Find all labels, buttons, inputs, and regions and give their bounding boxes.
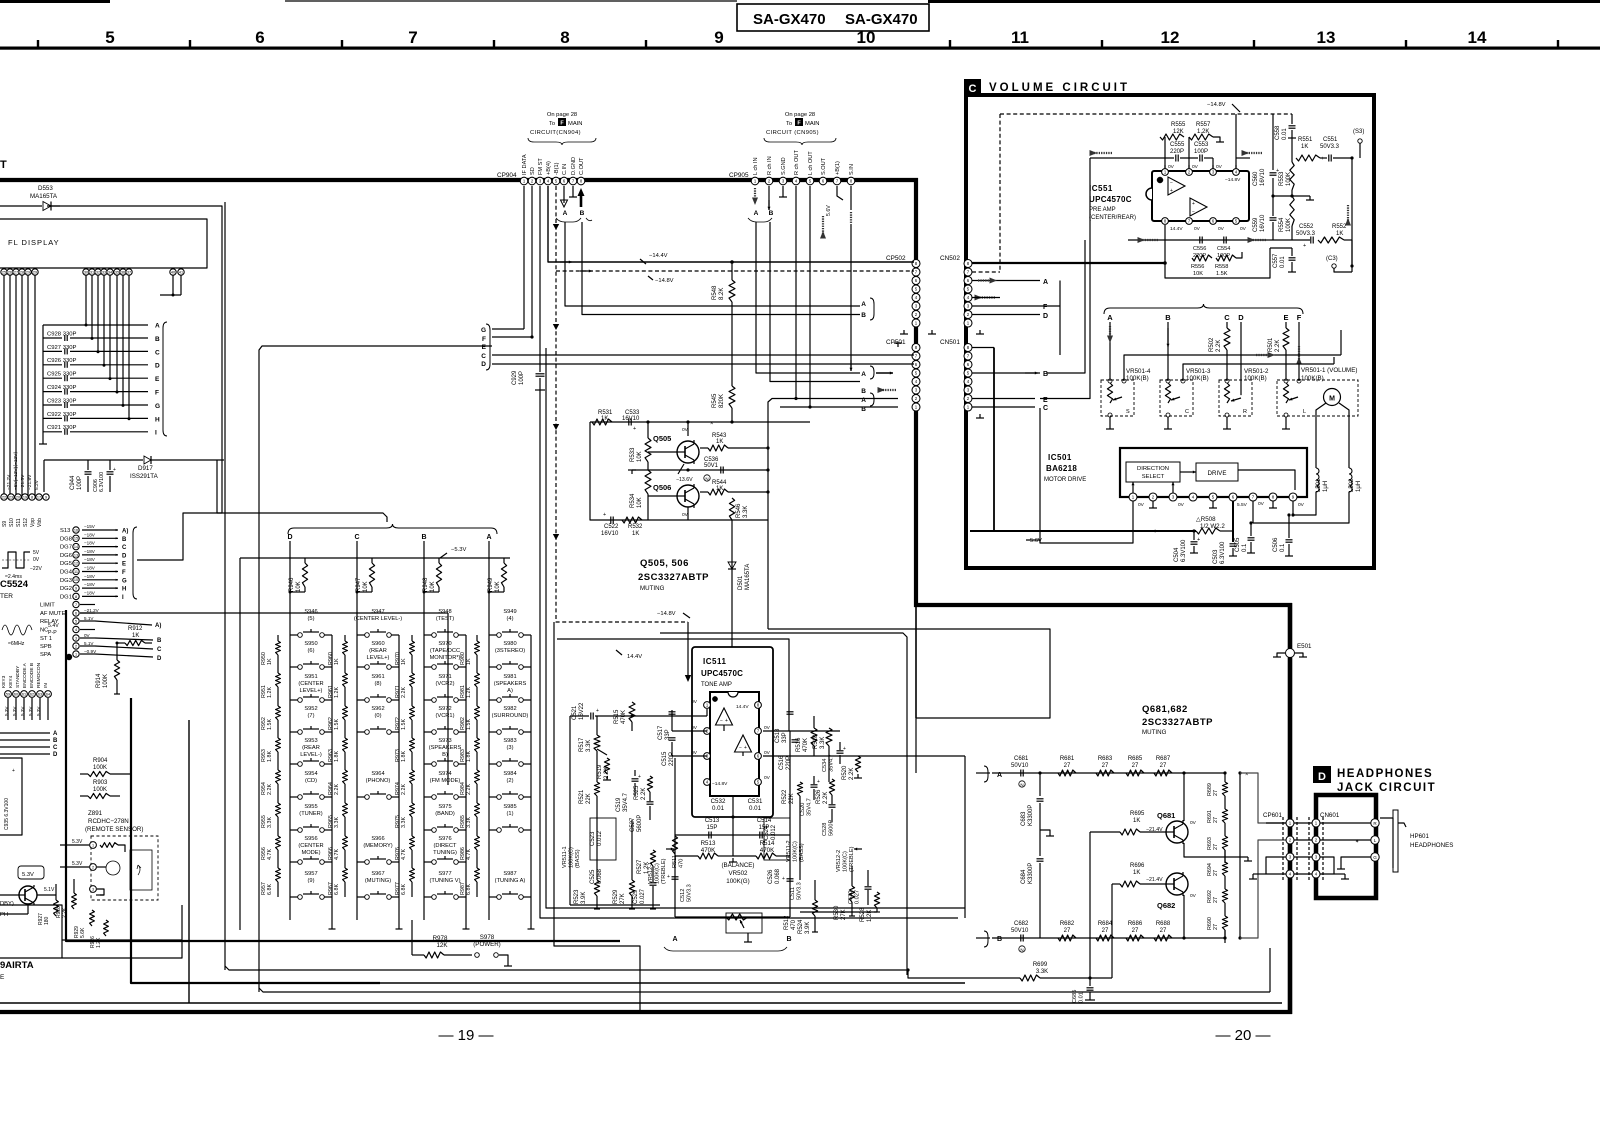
- svg-text:64: 64: [46, 692, 50, 696]
- svg-text:C684: C684: [1021, 869, 1027, 884]
- svg-text:C: C: [122, 545, 127, 551]
- svg-text:0V: 0V: [1258, 501, 1265, 507]
- wires pins row3 down: [7, 698, 9, 720]
- svg-text:0V: 0V: [1138, 502, 1145, 508]
- svg-text:R974: R974: [395, 782, 401, 795]
- svg-text:C551: C551: [1323, 137, 1338, 143]
- svg-text:+: +: [1303, 243, 1306, 249]
- svg-text:C525: C525: [590, 869, 596, 884]
- svg-text:C928 330P: C928 330P: [47, 331, 77, 337]
- svg-text:(CD): (CD): [305, 778, 317, 784]
- wire parallel x1240: [1239, 773, 1241, 938]
- headphones box outline: [1316, 795, 1376, 898]
- svg-text:(PHONO): (PHONO): [366, 778, 391, 784]
- arrow Rch down: [768, 186, 770, 210]
- wire matrix header drops: [289, 541, 291, 600]
- svg-text:C926 330P: C926 330P: [47, 358, 77, 364]
- svg-text:VR501-4: VR501-4: [1126, 368, 1151, 375]
- svg-text:D: D: [122, 553, 127, 559]
- svg-text:C925 330P: C925 330P: [47, 372, 77, 378]
- svg-text:10: 10: [857, 28, 876, 47]
- wire thin loop y633: [660, 633, 907, 975]
- svg-text:R687: R687: [1156, 756, 1171, 762]
- ground D.GND: [572, 186, 574, 197]
- svg-text:A: A: [1107, 313, 1113, 322]
- svg-text:100K(C): 100K(C): [792, 841, 798, 862]
- striped arrow left 2: [1246, 152, 1262, 154]
- svg-text:8: 8: [560, 28, 569, 47]
- svg-text:×: ×: [710, 421, 714, 427]
- svg-text:S973: S973: [438, 738, 451, 744]
- svg-text:32: 32: [96, 270, 100, 274]
- wire F drop: [1298, 322, 1300, 381]
- svg-text:R526: R526: [816, 789, 822, 804]
- svg-text:R984: R984: [460, 782, 466, 795]
- svg-text:5.6V: 5.6V: [826, 205, 832, 216]
- svg-text:(VCR1): (VCR1): [436, 713, 455, 719]
- svg-text:1/2 W2.2: 1/2 W2.2: [1200, 523, 1225, 530]
- svg-text:HP601: HP601: [1410, 833, 1429, 840]
- svg-text:0V: 0V: [764, 750, 771, 756]
- svg-text:25: 25: [2, 270, 6, 274]
- wire preamp input row: [1090, 157, 1174, 159]
- striped arrow up S3: [1347, 205, 1349, 221]
- thick wire left x131: [131, 698, 380, 983]
- striped arrow CN502 row4: [979, 296, 995, 298]
- svg-text:R534: R534: [630, 493, 636, 508]
- svg-text:R948: R948: [423, 577, 429, 592]
- section label D HEADPHONES JACK CIRCUIT: [1313, 766, 1331, 783]
- wire S3 vertical: [1351, 158, 1353, 266]
- svg-text:R557: R557: [1196, 122, 1211, 128]
- svg-text:R528: R528: [860, 907, 866, 922]
- svg-text:B: B: [53, 738, 58, 744]
- svg-text:36: 36: [121, 270, 125, 274]
- svg-text:0V: 0V: [1168, 164, 1175, 170]
- svg-text:10K: 10K: [637, 497, 643, 508]
- sine wave symbol: [2, 625, 32, 635]
- svg-text:C528: C528: [822, 823, 828, 836]
- svg-text:R970: R970: [395, 652, 401, 665]
- svg-text:−21.2V: −21.2V: [6, 474, 12, 490]
- wire D row long: [492, 363, 914, 365]
- svg-text:27: 27: [1064, 763, 1071, 769]
- svg-text:R546: R546: [736, 503, 742, 518]
- svg-text:R524: R524: [798, 919, 804, 934]
- striped arrow S.OUT up: [822, 216, 824, 234]
- svg-text:5.2V: 5.2V: [34, 479, 40, 490]
- wire IC511 bottom center: [732, 796, 734, 856]
- svg-text:100K(B): 100K(B): [1186, 375, 1209, 382]
- svg-text:1: 1: [75, 652, 77, 656]
- svg-text:C935 6.3V100: C935 6.3V100: [4, 798, 10, 830]
- svg-text:5.3V: 5.3V: [72, 839, 83, 845]
- svg-text:IC501: IC501: [1048, 453, 1072, 462]
- svg-text:+: +: [12, 768, 15, 774]
- svg-text:14: 14: [74, 545, 78, 549]
- svg-text:B: B: [861, 388, 866, 395]
- wire feed to B bracket: [976, 937, 990, 939]
- svg-text:13: 13: [1317, 28, 1336, 47]
- svg-text:(C3): (C3): [1326, 256, 1338, 262]
- svg-text:CP904: CP904: [497, 172, 517, 179]
- svg-text:(SPEAKERS: (SPEAKERS: [429, 745, 462, 751]
- wire caps left bus: [42, 325, 44, 440]
- svg-text:4.7K: 4.7K: [334, 849, 340, 860]
- svg-text:R691: R691: [1207, 810, 1213, 823]
- svg-text:DG8: DG8: [60, 536, 72, 542]
- svg-text:S971: S971: [438, 674, 451, 680]
- svg-text:R980: R980: [460, 652, 466, 665]
- wire G ground: [1341, 857, 1371, 865]
- svg-text:D: D: [155, 363, 160, 370]
- svg-text:R511: R511: [672, 855, 678, 868]
- svg-text:R695: R695: [1130, 811, 1145, 817]
- svg-text:BA6218: BA6218: [1046, 464, 1077, 473]
- wire main bus vertical CP502 column: [914, 178, 918, 607]
- svg-text:R684: R684: [1098, 921, 1113, 927]
- svg-text:C518: C518: [775, 728, 781, 743]
- striped arrow Lch down: [754, 188, 756, 202]
- svg-text:CN502: CN502: [940, 255, 960, 262]
- svg-text:DIRECTION: DIRECTION: [1137, 466, 1169, 472]
- svg-text:R513: R513: [701, 840, 716, 847]
- box 5.3V supply: [18, 866, 44, 879]
- svg-text:27: 27: [1132, 928, 1139, 934]
- svg-text:D: D: [1043, 313, 1048, 320]
- svg-text:5.1V: 5.1V: [84, 641, 94, 646]
- svg-text:(BASS): (BASS): [575, 849, 581, 868]
- svg-text:5.3V: 5.3V: [72, 861, 83, 867]
- svg-text:DG6: DG6: [60, 553, 72, 559]
- svg-text:−21.5V: −21.5V: [20, 474, 26, 490]
- svg-text:RCDHC−278N: RCDHC−278N: [88, 818, 129, 825]
- svg-text:1.2K: 1.2K: [466, 687, 472, 698]
- svg-text:R ch OUT: R ch OUT: [794, 150, 800, 175]
- svg-text:C517: C517: [658, 725, 664, 740]
- svg-text:KEY3: KEY3: [1, 675, 7, 688]
- svg-text:MONITOR*): MONITOR*): [430, 655, 461, 661]
- svg-text:R985: R985: [460, 815, 466, 828]
- svg-text:22: 22: [2, 495, 6, 499]
- wire left x189: [188, 720, 190, 1003]
- wire gray feed rows: [1240, 773, 1286, 823]
- svg-text:S961: S961: [371, 674, 384, 680]
- svg-text:DG7: DG7: [60, 545, 72, 551]
- block DRIVE: [1196, 463, 1238, 481]
- ground R557: [1213, 137, 1220, 142]
- IC501 BA6218 body: [1120, 448, 1307, 497]
- svg-text:R696: R696: [1130, 863, 1145, 869]
- svg-text:R514: R514: [760, 840, 775, 847]
- svg-text:6.8K: 6.8K: [466, 884, 472, 895]
- svg-text:A: A: [1043, 279, 1048, 286]
- svg-text:LEVEL+): LEVEL+): [300, 688, 323, 694]
- svg-text:C556: C556: [1193, 246, 1206, 252]
- wire A drop: [1109, 322, 1111, 381]
- svg-text:(6): (6): [308, 648, 315, 654]
- svg-text:B: B: [861, 312, 866, 319]
- svg-text:MAIN: MAIN: [805, 121, 820, 127]
- svg-text:(MEMORY): (MEMORY): [363, 843, 392, 849]
- svg-text:R972: R972: [395, 717, 401, 730]
- svg-text:(CENTER/REAR): (CENTER/REAR): [1089, 215, 1136, 221]
- remote sensor dashed box: [91, 836, 158, 900]
- svg-text:(9): (9): [308, 878, 315, 884]
- IC501 pins 1-9: [1129, 493, 1137, 501]
- svg-text:D: D: [53, 752, 58, 758]
- remote sensor internals: [100, 843, 118, 848]
- svg-text:12K: 12K: [436, 942, 448, 949]
- svg-text:+B(4): +B(4): [546, 161, 552, 175]
- svg-text:100K: 100K: [93, 787, 107, 793]
- svg-text:E: E: [155, 376, 160, 383]
- svg-text:R520: R520: [842, 765, 848, 780]
- striped arrow row 355: [1256, 354, 1272, 356]
- svg-text:DG2: DG2: [60, 586, 72, 592]
- svg-text:IN: IN: [43, 683, 49, 688]
- svg-text:S.GND: S.GND: [781, 157, 787, 175]
- svg-text:+: +: [667, 874, 670, 880]
- svg-text:A: A: [155, 323, 160, 330]
- wire A rail: [674, 758, 676, 917]
- svg-text:28: 28: [20, 270, 24, 274]
- svg-text:F: F: [122, 570, 126, 576]
- bracket A muting: [984, 766, 988, 782]
- svg-text:2.2K: 2.2K: [849, 768, 855, 780]
- svg-text:50V3.3: 50V3.3: [686, 884, 692, 902]
- svg-text:1.2K: 1.2K: [1197, 129, 1209, 135]
- svg-text:−: −: [739, 745, 742, 751]
- svg-text:6.3V100: 6.3V100: [99, 472, 105, 492]
- svg-text:L ch OUT: L ch OUT: [808, 151, 814, 175]
- IC511 outer box: [692, 647, 773, 817]
- svg-text:(TUNER): (TUNER): [299, 811, 322, 817]
- svg-text:R981: R981: [460, 685, 466, 698]
- svg-text:40: 40: [171, 270, 175, 274]
- wire B-net from CP904: [582, 222, 860, 315]
- wire L501 to pin9: [1293, 492, 1316, 515]
- svg-text:C520: C520: [800, 803, 806, 816]
- svg-text:△R508: △R508: [1196, 516, 1216, 523]
- svg-text:R551: R551: [1298, 137, 1313, 143]
- svg-text:C521: C521: [572, 705, 578, 720]
- display drop dots: [85, 324, 88, 327]
- svg-text:R692: R692: [1207, 890, 1213, 903]
- svg-text:C529: C529: [633, 889, 639, 904]
- svg-text:−21.8V: −21.8V: [27, 474, 33, 490]
- svg-text:100K: 100K: [93, 765, 107, 771]
- svg-text:C: C: [155, 349, 160, 356]
- svg-text:16: 16: [74, 528, 78, 532]
- svg-text:0.01: 0.01: [749, 805, 762, 812]
- striped arrow left 1: [1094, 152, 1112, 154]
- svg-text:S956: S956: [304, 836, 317, 842]
- IC511 pins left: [704, 702, 711, 709]
- svg-text:3: 3: [75, 636, 77, 640]
- svg-text:−: −: [1192, 209, 1195, 215]
- svg-text:27K: 27K: [620, 893, 626, 904]
- svg-text:DG4: DG4: [60, 570, 73, 576]
- svg-text:12: 12: [1161, 28, 1180, 47]
- svg-text:−21.4V: −21.4V: [1146, 877, 1163, 883]
- border top-right segment: [928, 0, 1600, 3]
- svg-text:D553: D553: [38, 185, 53, 192]
- svg-text:(DIRECT: (DIRECT: [433, 843, 457, 849]
- svg-text:A: A: [672, 936, 677, 943]
- wire pin3 arrow up: [1172, 482, 1174, 493]
- svg-text:C511: C511: [790, 887, 796, 900]
- svg-text:0.1: 0.1: [1280, 543, 1286, 552]
- border top thin line: [285, 0, 737, 2]
- svg-text:(CENTER: (CENTER: [298, 843, 323, 849]
- svg-text:16V22: 16V22: [579, 702, 585, 720]
- svg-text:2.2K: 2.2K: [466, 784, 472, 795]
- svg-text:A: A: [53, 731, 58, 737]
- svg-text:C922 330P: C922 330P: [47, 412, 77, 418]
- svg-text:S.IN: S.IN: [849, 164, 855, 175]
- svg-text:R953: R953: [261, 749, 267, 762]
- wire motor leads: [1316, 403, 1326, 468]
- svg-text:R986: R986: [460, 847, 466, 860]
- svg-text:SPB: SPB: [40, 644, 52, 650]
- svg-text:5600P: 5600P: [637, 815, 643, 832]
- svg-text:MAIN: MAIN: [568, 121, 583, 127]
- svg-text:R527: R527: [637, 859, 643, 874]
- svg-text:F: F: [1297, 313, 1302, 322]
- svg-text:6.8K: 6.8K: [334, 884, 340, 895]
- svg-text:5.1V: 5.1V: [84, 616, 94, 621]
- svg-text:−14.8V: −14.8V: [1207, 102, 1226, 108]
- svg-text:F: F: [155, 390, 159, 397]
- wire Q681 collector: [1183, 773, 1185, 821]
- svg-text:−18V: −18V: [84, 557, 96, 562]
- svg-text:1.5K: 1.5K: [401, 719, 407, 730]
- wire C row long: [492, 354, 914, 356]
- tone right ground rail: [800, 911, 877, 913]
- left IC box bottom: [0, 905, 62, 958]
- svg-text:9AIRTA: 9AIRTA: [0, 960, 34, 971]
- svg-text:0V: 0V: [84, 633, 91, 638]
- svg-text:R ch IN: R ch IN: [767, 156, 773, 175]
- wire bottom band y983: [380, 982, 965, 984]
- svg-text:+: +: [725, 718, 728, 724]
- svg-text:17: 17: [37, 495, 41, 499]
- svg-text:MA165TA: MA165TA: [30, 193, 58, 200]
- svg-text:3: 3: [92, 887, 94, 891]
- svg-text:(7): (7): [308, 713, 315, 719]
- svg-text:1.8K: 1.8K: [401, 751, 407, 762]
- svg-text:3.9K: 3.9K: [805, 922, 811, 934]
- svg-text:8: 8: [31, 495, 33, 499]
- svg-text:−: −: [720, 718, 723, 724]
- svg-text:9: 9: [75, 586, 77, 590]
- svg-text:SA-GX470: SA-GX470: [753, 11, 826, 28]
- IC501 pin grounds: [1152, 501, 1154, 508]
- svg-text:S9: S9: [2, 521, 8, 527]
- svg-text:27: 27: [1102, 763, 1109, 769]
- wire vertical x259 long: [258, 355, 260, 992]
- svg-text:C5524: C5524: [0, 579, 29, 590]
- striped arrow left 3: [1142, 239, 1158, 241]
- svg-text:K3300P: K3300P: [1028, 863, 1034, 884]
- svg-text:0V: 0V: [1178, 502, 1185, 508]
- svg-text:5: 5: [75, 619, 77, 623]
- svg-text:B: B: [157, 638, 162, 644]
- svg-text:0V: 0V: [1298, 502, 1305, 508]
- svg-text:0V: 0V: [764, 775, 771, 781]
- svg-text:10K: 10K: [363, 581, 369, 592]
- svg-text:3.3K: 3.3K: [466, 817, 472, 828]
- svg-text:27: 27: [1160, 928, 1167, 934]
- IC511 body: [710, 692, 759, 796]
- svg-text:S976: S976: [438, 836, 451, 842]
- wire IC551 sub-circuit outline: [1165, 225, 1270, 278]
- wire volume row 364: [1183, 364, 1334, 381]
- svg-text:C527: C527: [630, 817, 636, 832]
- svg-text:27: 27: [1213, 790, 1219, 796]
- svg-text:−14.8V: −14.8V: [655, 278, 674, 284]
- svg-text:FM ST: FM ST: [538, 158, 544, 175]
- controller pin row 2: [1, 494, 7, 500]
- svg-text:100P: 100P: [1194, 149, 1208, 155]
- wire x217 to matrix brace: [217, 460, 387, 522]
- svg-text:R521: R521: [579, 789, 585, 804]
- wire 14.4V feed to IC551: [968, 262, 1165, 264]
- svg-text:34: 34: [108, 270, 112, 274]
- svg-text:27: 27: [1213, 817, 1219, 823]
- svg-text:S983: S983: [503, 738, 516, 744]
- svg-text:VR501-2: VR501-2: [1244, 368, 1269, 375]
- svg-text:C: C: [1224, 313, 1230, 322]
- svg-text:SELECT: SELECT: [1142, 474, 1165, 480]
- svg-text:+B(1): +B(1): [835, 161, 841, 175]
- svg-text:S970: S970: [438, 641, 451, 647]
- svg-text:C530: C530: [848, 891, 854, 904]
- svg-text:MODE): MODE): [302, 850, 321, 856]
- svg-text:R516: R516: [796, 737, 802, 752]
- svg-text:14.4V: 14.4V: [736, 704, 749, 710]
- svg-text:0.01: 0.01: [1280, 256, 1286, 268]
- svg-text:1K: 1K: [267, 658, 273, 665]
- svg-text:S11: S11: [16, 518, 22, 527]
- svg-text:4.7K: 4.7K: [466, 849, 472, 860]
- svg-text:5: 5: [105, 28, 114, 47]
- svg-text:10K: 10K: [430, 581, 436, 592]
- svg-text:S980: S980: [503, 641, 516, 647]
- svg-text:(REAR: (REAR: [369, 648, 387, 654]
- svg-text:4: 4: [75, 628, 77, 632]
- switch matrix header brace: [288, 524, 497, 534]
- svg-text:E: E: [122, 562, 126, 568]
- svg-text:On page 28: On page 28: [785, 112, 815, 118]
- svg-text:27: 27: [1102, 928, 1109, 934]
- svg-text:C927 330P: C927 330P: [47, 345, 77, 351]
- svg-text:B: B: [997, 936, 1002, 943]
- svg-text:0.012: 0.012: [597, 830, 603, 846]
- svg-text:35V4.7: 35V4.7: [623, 792, 629, 812]
- svg-text:1.2K: 1.2K: [267, 687, 273, 698]
- wire vertical x225 long: [224, 202, 226, 970]
- svg-text:1K: 1K: [716, 439, 723, 445]
- svg-text:2.2K: 2.2K: [823, 792, 829, 804]
- svg-text:27: 27: [1213, 870, 1219, 876]
- wire loop to tone: [554, 622, 640, 1012]
- svg-text:IC511: IC511: [703, 657, 726, 666]
- svg-text:R512: R512: [784, 915, 790, 930]
- svg-text:61: 61: [22, 692, 26, 696]
- svg-text:B: B: [122, 537, 127, 543]
